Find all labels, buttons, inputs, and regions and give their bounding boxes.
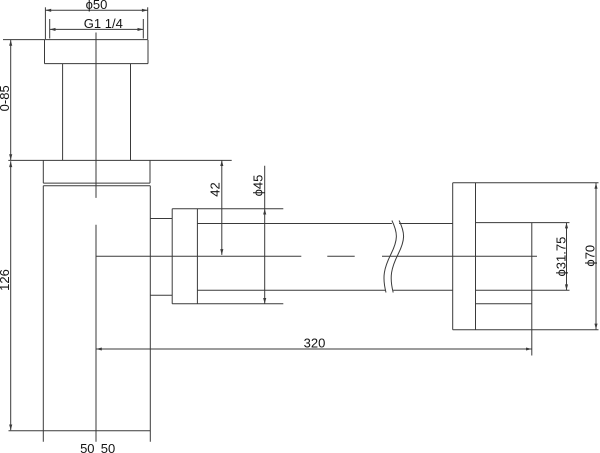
horizontal centerline: [96, 255, 537, 257]
wall flange: [453, 183, 599, 330]
dimension phi31.75: [565, 223, 568, 291]
pipe break: [384, 221, 404, 293]
outlet stub: [150, 219, 172, 296]
dimension phi70: [594, 183, 597, 329]
svg-text:ϕ45: ϕ45: [251, 175, 266, 197]
dimension G1 1/4: [50, 19, 144, 39]
body flange: [8, 160, 231, 183]
tailpiece cap nut: [3, 40, 148, 64]
dimension phi50: [45, 7, 147, 39]
svg-text:ϕ31.75: ϕ31.75: [554, 237, 569, 277]
svg-text:ϕ70: ϕ70: [583, 245, 598, 267]
svg-text:50: 50: [101, 441, 115, 453]
outlet nut: [172, 209, 283, 304]
wall sleeve box: [476, 223, 570, 356]
svg-text:ϕ50: ϕ50: [86, 0, 108, 12]
dimension 42: [220, 160, 223, 255]
tailpiece pipe: [63, 64, 131, 161]
svg-text:42: 42: [208, 182, 223, 196]
outlet pipe: [197, 224, 569, 291]
svg-text:G1 1/4: G1 1/4: [84, 16, 123, 31]
vertical centerline: [95, 33, 97, 442]
dimension 0-85: [9, 40, 12, 160]
svg-text:320: 320: [304, 335, 326, 350]
svg-text:126: 126: [0, 269, 12, 291]
svg-text:50: 50: [80, 441, 94, 453]
dimension 126: [9, 161, 12, 430]
svg-text:0-85: 0-85: [0, 85, 12, 111]
dimension phi45: [263, 166, 266, 304]
dimension 320: [96, 347, 532, 350]
trap body: [9, 186, 151, 442]
